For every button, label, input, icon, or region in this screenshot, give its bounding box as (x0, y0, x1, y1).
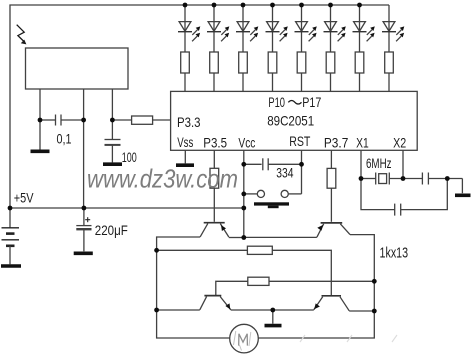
svg-text:Vss: Vss (177, 135, 193, 150)
svg-text:X1: X1 (356, 135, 369, 150)
svg-text:www.dz3w.com: www.dz3w.com (87, 164, 238, 194)
svg-text:+5V: +5V (14, 190, 34, 205)
svg-text:334: 334 (276, 166, 294, 181)
svg-text:Vcc: Vcc (238, 135, 255, 150)
svg-text:RST: RST (289, 134, 310, 149)
svg-text:P10: P10 (268, 95, 285, 110)
svg-text:P3.7: P3.7 (324, 135, 348, 150)
svg-text:P3.3: P3.3 (177, 115, 201, 130)
svg-text:1kx13: 1kx13 (380, 245, 409, 261)
svg-text:89C2051: 89C2051 (267, 113, 314, 128)
svg-text:6MHz: 6MHz (366, 156, 392, 171)
svg-text:P17: P17 (302, 95, 321, 110)
svg-text:220μF: 220μF (95, 223, 128, 238)
svg-text:0,1: 0,1 (57, 132, 72, 147)
svg-text:X2: X2 (393, 135, 406, 150)
svg-text:P3.5: P3.5 (203, 135, 227, 150)
